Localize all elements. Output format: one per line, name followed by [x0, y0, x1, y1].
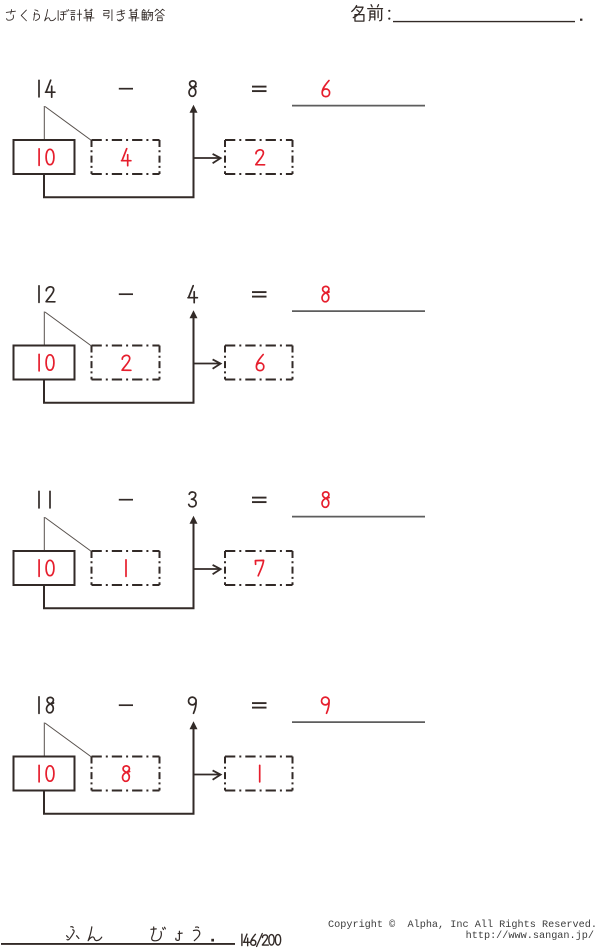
problem 1 connector path: [44, 112, 194, 197]
problem 1 result digit 2 (red): [256, 150, 265, 165]
problem 3 right arrow: [195, 565, 221, 574]
problem 4 tens value 10 (red): [39, 765, 54, 782]
problem 4 up arrowhead: [190, 721, 198, 729]
problem 2 up arrowhead: [190, 310, 198, 318]
problem 1 ones digit 4 (red): [122, 149, 131, 166]
problem 4 fork line left: [43, 723, 45, 757]
problem 4 answer digit 9 (red): [322, 697, 330, 713]
problem 1 subtrahend 8: [189, 81, 196, 96]
footer time underline: [1, 943, 235, 945]
problem 3 tens value 10 (red): [39, 560, 54, 577]
problem 2 tens box (solid): [14, 346, 75, 380]
problem 3 answer digit 8 (red): [322, 492, 329, 507]
problem 2 answer digit 8 (red): [322, 286, 329, 301]
problem 1 fork line left: [43, 106, 45, 140]
problem 3 up arrowhead: [190, 516, 198, 524]
footer period: [211, 939, 214, 942]
worksheet title さくらんぼ計算 引き算解答: [6, 9, 164, 21]
problem 1 equals sign: [252, 87, 267, 92]
problem 3 result box (dashed) value 7: [225, 551, 293, 585]
problem 3 ones box (dashed) value 1: [92, 551, 160, 585]
name underline: [393, 21, 575, 23]
problem 1 ones box (dashed) value 4: [92, 140, 160, 174]
problem 4 result digit 1 (red): [259, 765, 261, 782]
problem 3 subtrahend 3: [189, 492, 196, 507]
problem 2 minuend 12: [39, 286, 55, 303]
footer びょう label: [151, 927, 200, 941]
problem 1 answer line: [292, 105, 425, 107]
problem 3 answer line: [292, 516, 425, 518]
problem 4 minuend 18: [39, 697, 54, 714]
problem 4 connector path: [44, 729, 194, 814]
problem 3 minuend 11: [39, 491, 50, 508]
problem 3 fork line left: [43, 517, 45, 551]
problem 2 ones digit 2 (red): [122, 355, 131, 370]
problem 3 fork line right: [45, 518, 92, 552]
problem 2 right arrow: [195, 359, 221, 368]
problem 3 result digit 7 (red): [255, 560, 263, 575]
problem 2 result box (dashed) value 6: [225, 346, 293, 380]
problem 4 right arrow: [195, 770, 221, 779]
problem 2 connector path: [44, 318, 194, 403]
problem 4 equals sign: [252, 703, 267, 708]
problem 2 ones box (dashed) value 2: [92, 346, 160, 380]
problem 3 tens box (solid): [14, 551, 75, 585]
problem 3 minus sign: [119, 499, 133, 501]
problem 2 fork line left: [43, 312, 45, 346]
problem 1 tens box (solid): [14, 140, 75, 174]
problem 4 result box (dashed) value 1: [225, 757, 293, 791]
problem 1 tens value 10 (red): [39, 149, 54, 166]
problem 1 result box (dashed) value 2: [225, 140, 293, 174]
copyright notice: [328, 920, 597, 943]
problem 3 equals sign: [252, 498, 267, 503]
problem 4 fork line right: [45, 723, 92, 757]
problem 3 ones digit 1 (red): [125, 560, 127, 577]
footer ふん label: [67, 927, 102, 941]
problem 4 tens box (solid): [14, 757, 75, 791]
problem 4 subtrahend 9: [189, 697, 197, 713]
problem 1 answer digit 6 (red): [322, 81, 329, 97]
problem 1 up arrowhead: [190, 105, 198, 113]
problem 1 minuend 14: [39, 80, 55, 97]
problem 2 equals sign: [252, 292, 267, 297]
problem 3 connector path: [44, 523, 194, 608]
sheet number 146/200: [242, 934, 281, 947]
period after name line: [580, 19, 582, 21]
problem 4 ones digit 8 (red): [123, 766, 130, 781]
problem 4 minus sign: [119, 704, 133, 706]
problem 4 ones box (dashed) value 8: [92, 757, 160, 791]
problem 2 answer line: [292, 310, 425, 312]
problem 2 tens value 10 (red): [39, 354, 54, 371]
problem 2 subtrahend 4: [188, 286, 197, 303]
problem 2 result digit 6 (red): [256, 355, 263, 371]
problem 4 answer line: [292, 721, 425, 723]
problem 2 fork line right: [45, 312, 92, 346]
problem 1 right arrow: [195, 154, 221, 163]
name label 名前:: [352, 5, 391, 21]
problem 1 fork line right: [45, 107, 92, 141]
problem 1 minus sign: [119, 88, 133, 90]
problem 2 minus sign: [119, 293, 133, 295]
